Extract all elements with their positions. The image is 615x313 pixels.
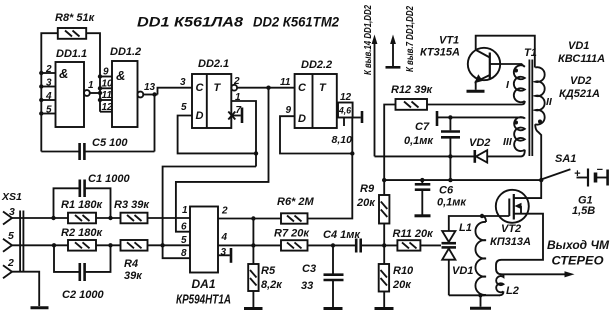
svg-text:DD1 К561ЛА8: DD1 К561ЛА8: [137, 15, 244, 30]
wire bottom rail to L2: [449, 294, 500, 296]
switch SA1: [539, 169, 570, 182]
resistor R12: [396, 99, 428, 110]
pin 13 output wire with jog to DD2.1: [143, 82, 192, 97]
pin 5 label: [181, 235, 187, 246]
svg-text:9: 9: [286, 105, 292, 116]
wire trigger pin2 net down to DA1 pin 6: [176, 88, 269, 232]
pin 4: [39, 91, 55, 102]
wire VT2 drain to supply node: [514, 180, 541, 198]
trigger DD2.1 label: [198, 58, 229, 70]
pin 12 output box 4,6: [332, 92, 363, 146]
transistor VT2 labels: [490, 223, 531, 248]
svg-text:R10: R10: [393, 265, 414, 277]
svg-text:4: 4: [45, 91, 52, 102]
transformer T1 core: [529, 60, 532, 157]
resistor R8 label: [55, 12, 96, 24]
capacitor C2 label: [62, 289, 104, 301]
svg-text:3: 3: [180, 77, 186, 88]
svg-text:К выв.14 DD1,DD2: К выв.14 DD1,DD2: [362, 5, 374, 75]
chip DA1: [190, 207, 218, 273]
svg-text:DD2 К561ТМ2: DD2 К561ТМ2: [253, 15, 339, 30]
pin 11: [98, 90, 113, 102]
svg-text:5: 5: [46, 105, 52, 116]
svg-text:6: 6: [181, 222, 187, 233]
svg-text:R6* 2М: R6* 2М: [277, 196, 315, 208]
power arrow to pin7 DD1,DD2: [386, 6, 417, 72]
svg-text:R1 180к: R1 180к: [61, 199, 103, 211]
trigger DD2.2 label: [301, 59, 332, 71]
pin 7 stub with X and bar: [228, 105, 242, 123]
svg-text:VD2: VD2: [570, 75, 591, 87]
transistor VT1: [468, 48, 500, 83]
capacitor C6 label: [437, 185, 467, 209]
svg-text:Выход ЧМ: Выход ЧМ: [547, 238, 610, 252]
node battery rail y180: [382, 178, 541, 182]
battery G1: [574, 164, 608, 187]
svg-text:R3 39к: R3 39к: [114, 199, 150, 211]
varicap pair VD1: [442, 216, 457, 295]
wire R10: [383, 245, 385, 264]
ground C3: [324, 307, 343, 310]
capacitor C4 label: [323, 229, 361, 241]
svg-text:1,5В: 1,5В: [572, 205, 595, 217]
svg-text:DD2.2: DD2.2: [301, 59, 332, 71]
transformer T1 winding III: [503, 117, 525, 151]
gate DD1.2: [112, 61, 143, 127]
svg-text:С5 100: С5 100: [92, 137, 128, 149]
capacitor C3 label: [301, 263, 316, 292]
pin 4 label: [221, 232, 228, 243]
svg-text:2: 2: [7, 257, 14, 269]
node L1 top: [480, 214, 484, 218]
pin 3 stub with bar: [218, 247, 231, 263]
svg-text:КР594НТ1А: КР594НТ1А: [176, 293, 231, 307]
svg-text:&: &: [116, 68, 125, 83]
wire R11 to VD1: [420, 244, 441, 246]
svg-text:R4: R4: [124, 258, 138, 270]
pin 5: [39, 105, 55, 116]
resistor R6: [281, 213, 308, 223]
svg-text:11: 11: [280, 77, 291, 88]
svg-text:D: D: [196, 110, 204, 122]
svg-text:39к: 39к: [124, 270, 143, 282]
svg-text:DD1.2: DD1.2: [110, 46, 141, 58]
svg-text:9: 9: [103, 67, 109, 78]
svg-text:3: 3: [46, 78, 52, 89]
wire pin2 node down to R5: [252, 219, 254, 265]
pin 2 wire: [218, 216, 281, 220]
svg-text:КТ315А: КТ315А: [420, 47, 460, 59]
pin 2 output wire to DD2.2 pin 11: [233, 76, 295, 90]
pin 5 label: [181, 102, 187, 113]
svg-text:5: 5: [181, 235, 187, 246]
svg-text:КВС111А: КВС111А: [558, 53, 605, 65]
inductor L2: [496, 269, 504, 296]
svg-text:R11 20к: R11 20к: [393, 228, 435, 240]
connector shield lines: [20, 211, 23, 273]
resistor R11 label: [393, 228, 435, 240]
pin 1 output wire: [88, 80, 102, 95]
capacitor C1 bridge: [51, 180, 112, 221]
svg-text:13: 13: [144, 82, 156, 93]
connector pin 3: [3, 206, 15, 225]
transformer T1 label: [524, 47, 537, 59]
pin 8 label: [181, 248, 187, 259]
svg-text:VD1: VD1: [568, 40, 589, 52]
resistor R6 label: [277, 196, 315, 208]
svg-text:VT1: VT1: [439, 35, 459, 47]
svg-text:III: III: [503, 136, 513, 148]
transistor VT2: [496, 190, 529, 223]
wire C7 to winding III top: [450, 116, 521, 118]
svg-text:0,1мк: 0,1мк: [404, 135, 434, 147]
resistor R9: [379, 195, 389, 224]
pin 6 label: [181, 222, 187, 233]
wire VT1 collector to winding II: [476, 36, 535, 68]
svg-text:1: 1: [88, 80, 94, 91]
diode VD2 label: [469, 137, 490, 149]
power arrow to pin14 DD1,DD2: [362, 5, 377, 157]
pin 2: [39, 64, 55, 75]
wire R4 to DA1 pin5: [148, 244, 191, 246]
wire VT2 gate: [450, 215, 509, 217]
pin 2 label: [221, 206, 228, 217]
capacitor C5 label: [92, 137, 128, 149]
switch SA1 label: [555, 153, 576, 165]
trigger DD2.1: [192, 74, 237, 128]
transformer T1 winding I: [506, 65, 525, 102]
wire R3 to DA1 pin1: [148, 217, 191, 219]
wire R12 right to winding I: [427, 104, 522, 106]
svg-text:VD1: VD1: [452, 265, 473, 277]
resistor R3 label: [114, 199, 150, 211]
capacitor C4: [356, 239, 397, 253]
svg-text:2: 2: [233, 76, 240, 87]
svg-text:0,1мк: 0,1мк: [437, 197, 467, 209]
svg-text:4,6: 4,6: [338, 106, 352, 117]
inductor L1: [475, 216, 486, 295]
resistor R9 label: [356, 183, 376, 209]
pin 3: [39, 78, 55, 89]
wire R8 right to output bus: [86, 33, 100, 112]
svg-text:C: C: [196, 82, 205, 94]
resistor R12 label: [391, 84, 433, 96]
svg-text:R9: R9: [360, 183, 375, 195]
output arrow: [500, 271, 575, 277]
svg-text:3: 3: [221, 247, 227, 258]
svg-text:20к: 20к: [392, 279, 412, 291]
wire row5: [12, 244, 68, 246]
pin 12: [100, 102, 113, 113]
wire R12 left down: [384, 105, 395, 196]
resistor R5 label: [261, 265, 283, 291]
svg-text:VD2: VD2: [469, 137, 490, 149]
wire row2 to ground: [12, 272, 39, 306]
resistor R5: [248, 264, 258, 291]
svg-text:D: D: [298, 113, 306, 125]
svg-text:DD1.1: DD1.1: [56, 48, 87, 60]
wire VT2 source loop to output: [496, 214, 543, 269]
resistor R10 label: [392, 265, 414, 291]
battery G1 label: [572, 195, 595, 218]
svg-text:С3: С3: [302, 263, 316, 275]
pin 4 wire: [218, 243, 281, 247]
resistor R10: [379, 264, 389, 292]
svg-text:4: 4: [221, 232, 228, 243]
wire winding III bottom lead: [521, 150, 525, 157]
svg-text:L1: L1: [459, 222, 472, 234]
ground XS1: [31, 306, 49, 309]
diode set VD1 VD2 labels: [558, 40, 605, 100]
wire R9 bottom to row: [383, 224, 385, 246]
capacitor C6: [415, 180, 431, 216]
svg-text:10: 10: [102, 78, 114, 89]
ground R5: [244, 307, 263, 310]
capacitor C7 with tap bar: [437, 111, 460, 180]
svg-text:С7: С7: [415, 121, 430, 133]
capacitor C2 bridge: [52, 243, 113, 281]
gate DD1.2 label: [110, 46, 141, 58]
chip DA1 labels: [176, 277, 231, 307]
resistor R7 label: [274, 228, 310, 240]
transformer T1 winding II: [535, 67, 553, 124]
resistor R7: [281, 240, 308, 250]
wire VT1 emitter to chassis: [475, 81, 477, 90]
gate DD1.1: [56, 62, 90, 127]
ground R10: [375, 307, 394, 310]
svg-text:1: 1: [235, 92, 241, 103]
wire R2-R4: [96, 244, 121, 246]
gate DD1.1 label: [56, 48, 87, 60]
wire winding I bottom to R12: [522, 101, 525, 105]
svg-text:12: 12: [102, 102, 114, 113]
resistor R4: [121, 240, 148, 251]
varicap pair VD1 label: [452, 265, 473, 277]
svg-text:L2: L2: [506, 285, 519, 297]
svg-text:12: 12: [340, 92, 352, 103]
svg-text:С2 1000: С2 1000: [62, 289, 104, 301]
svg-text:1: 1: [182, 205, 188, 216]
wire DD1.2 out down to C5: [154, 95, 156, 152]
svg-text:&: &: [59, 66, 68, 81]
connector pin 5: [3, 230, 14, 252]
resistor R2 label: [61, 227, 103, 239]
wire row3: [12, 217, 68, 219]
svg-text:−: −: [597, 164, 604, 176]
wire R5 to ground: [252, 291, 254, 307]
svg-text:КД521А: КД521А: [559, 88, 600, 100]
trigger DD2.2: [295, 74, 337, 128]
svg-text:R7 20к: R7 20к: [274, 228, 310, 240]
wire R1-R3: [96, 217, 121, 219]
diode VD2: [450, 150, 521, 163]
svg-text:2: 2: [45, 64, 52, 75]
wire pins 8,10 down to R6: [308, 118, 353, 219]
ground bottom: [480, 295, 482, 306]
pin 9 label: [286, 105, 292, 116]
resistor R3: [121, 213, 148, 224]
svg-text:С1 1000: С1 1000: [88, 173, 130, 185]
node 8,10 junction: [350, 151, 354, 155]
wire supply y156: [375, 155, 451, 157]
wire VT1 base to winding I: [500, 64, 525, 67]
svg-text:11: 11: [102, 90, 113, 101]
capacitor C7 label: [404, 121, 434, 147]
svg-text:8: 8: [181, 248, 187, 259]
svg-text:C: C: [298, 82, 307, 94]
svg-text:R12 39к: R12 39к: [391, 84, 433, 96]
resistor R1: [68, 213, 96, 224]
resistor R4 label: [124, 258, 143, 282]
svg-text:7: 7: [236, 105, 242, 116]
svg-text:8,2к: 8,2к: [261, 279, 283, 291]
svg-text:T1: T1: [524, 47, 537, 59]
pin 10: [98, 78, 113, 90]
pin 1 label: [182, 205, 188, 216]
svg-text:ХS1: ХS1: [1, 191, 22, 203]
transistor VT1 labels: [420, 35, 460, 59]
pin 1 output loop to D input: [178, 92, 259, 156]
connector XS1 label: [1, 191, 22, 203]
svg-text:SA1: SA1: [555, 153, 576, 165]
wire R7 to C3 node: [308, 243, 357, 247]
chassis bar VT1 emitter: [467, 90, 485, 93]
svg-text:С6: С6: [439, 185, 454, 197]
svg-text:8,10: 8,10: [332, 134, 353, 146]
svg-text:КП313А: КП313А: [490, 236, 531, 248]
inductor L1 label: [459, 222, 472, 234]
svg-text:5: 5: [8, 230, 14, 242]
pin 9: [98, 67, 112, 79]
capacitor C1 label: [88, 173, 130, 185]
svg-text:DA1: DA1: [192, 277, 216, 291]
resistor R1 label: [61, 199, 103, 211]
wire D-loop net down to DA1 pins 5,8: [163, 167, 256, 259]
resistor R2: [68, 240, 96, 251]
header DD1 K561LA8: [137, 15, 244, 30]
wire R8 left to input bus: [41, 33, 58, 151]
svg-text:R2 180к: R2 180к: [61, 227, 103, 239]
svg-text:R5: R5: [261, 265, 276, 277]
svg-text:К выв.7 DD1,DD2: К выв.7 DD1,DD2: [404, 6, 416, 72]
svg-text:DD2.1: DD2.1: [198, 58, 229, 70]
svg-text:33: 33: [301, 280, 313, 292]
inductor L2 label: [506, 285, 519, 297]
capacitor C3: [324, 245, 344, 307]
wire winding III top lead: [521, 117, 525, 118]
output label: [547, 238, 610, 268]
svg-text:R8* 51к: R8* 51к: [55, 12, 96, 24]
pin 9 D loop: [280, 116, 352, 153]
resistor R11: [397, 240, 420, 250]
header DD2 K561TM2: [253, 15, 339, 30]
pin 3 label: [180, 77, 186, 88]
svg-text:СТЕРЕО: СТЕРЕО: [552, 254, 605, 268]
resistor R8: [58, 28, 86, 39]
connector pin 2: [3, 257, 14, 278]
capacitor C5: [41, 143, 154, 160]
wire winding II bottom to SA1 node: [535, 124, 541, 180]
svg-text:5: 5: [181, 102, 187, 113]
svg-text:VT2: VT2: [501, 223, 521, 235]
svg-text:2: 2: [221, 206, 228, 217]
svg-text:20к: 20к: [356, 197, 376, 209]
